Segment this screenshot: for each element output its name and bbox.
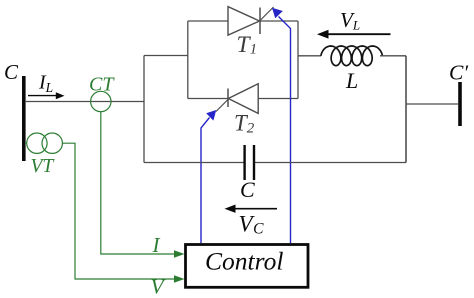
blue gate arrowhead T1	[272, 8, 283, 18]
svg-text:T2: T2	[234, 111, 255, 137]
voltage arrow V_L	[326, 33, 391, 35]
capacitor C plates	[243, 145, 245, 180]
svg-text:C: C	[240, 177, 255, 202]
blue gate wire to T2	[201, 118, 210, 244]
wire T2 branch bottom	[188, 98, 298, 100]
arrowhead I into control	[174, 250, 185, 258]
blue gate wire to T1	[279, 17, 291, 244]
bus C' (right busbar)	[458, 82, 462, 126]
svg-text:I: I	[152, 233, 161, 257]
svg-text:VT: VT	[31, 156, 55, 177]
svg-text:VC: VC	[239, 212, 265, 238]
wire capacitor line right segment	[255, 162, 406, 164]
CT current transformer circle	[91, 91, 111, 111]
svg-text:L: L	[345, 68, 358, 93]
wire from block to inductor	[298, 55, 321, 57]
wire green V path from VT to control	[62, 143, 176, 279]
wire capacitor line left segment	[144, 162, 244, 164]
wire inner block right vertical	[297, 21, 299, 99]
control block	[186, 245, 309, 288]
wire main line from bus to left vertical	[25, 101, 144, 103]
inductor L coil	[321, 46, 383, 66]
voltage arrow V_C	[233, 208, 277, 210]
wire VT stub from bus	[25, 142, 27, 144]
thyristor T2 (triangle, cathode bar, gate)	[216, 84, 258, 114]
wire left outer vertical	[143, 56, 145, 163]
svg-text:VL: VL	[340, 8, 360, 33]
wire T1 branch top	[188, 20, 298, 22]
svg-text:V: V	[151, 275, 167, 298]
wire inner block left vertical	[187, 21, 189, 99]
wire to C' bus	[406, 103, 458, 105]
current arrow I_L	[28, 95, 58, 97]
svg-text:T1: T1	[237, 32, 258, 58]
svg-text:C′: C′	[449, 61, 468, 85]
transformer VT (two circles)	[27, 133, 47, 153]
svg-text:Control: Control	[205, 247, 283, 276]
wire green I path from CT to control	[101, 112, 176, 254]
bus C (left busbar)	[22, 76, 26, 161]
arrowhead V into control	[174, 275, 185, 283]
svg-text:C: C	[4, 60, 19, 84]
wire from inductor to right vertical	[380, 55, 406, 57]
thyristor T1 (triangle, cathode bar, gate)	[228, 7, 274, 36]
svg-text:IL: IL	[38, 72, 53, 96]
svg-text:CT: CT	[89, 74, 115, 96]
wire top-left horizontal to inner block	[144, 55, 188, 57]
blue gate arrowhead T2	[206, 110, 216, 121]
wire right outer vertical	[405, 56, 407, 163]
